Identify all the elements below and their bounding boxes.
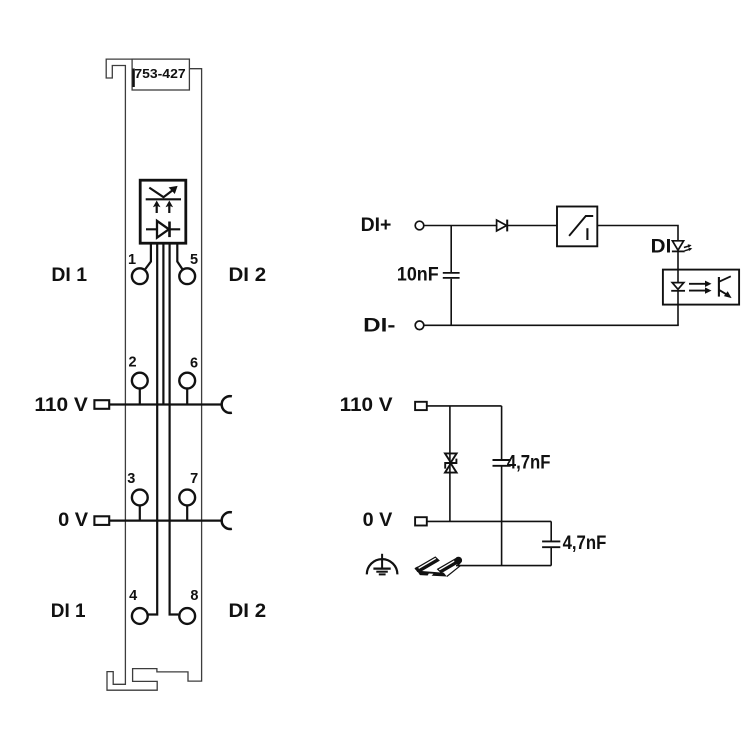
terminal 3 circle + stem <box>139 505 141 520</box>
surge arrow head <box>169 186 178 194</box>
terminal 1 circle <box>132 268 148 284</box>
DIN rail symbol <box>415 557 462 577</box>
LED DI indicator <box>672 241 683 250</box>
terminal 5 circle <box>179 268 195 284</box>
node junction vertical with 10nF <box>450 226 452 326</box>
opto LED <box>677 269 679 282</box>
svg-text:110 V: 110 V <box>34 394 88 416</box>
svg-text:110 V: 110 V <box>340 394 393 416</box>
terminal circle DI+ <box>415 221 424 230</box>
svg-text:DI+: DI+ <box>361 214 392 236</box>
terminal 8 circle <box>179 608 195 624</box>
svg-text:4: 4 <box>129 588 137 604</box>
order-number label box <box>132 59 189 90</box>
110V spade terminal <box>415 402 427 410</box>
diode D1 in box <box>146 228 180 230</box>
svg-text:3: 3 <box>127 471 135 487</box>
110V wire <box>427 405 502 407</box>
threshold symbol <box>569 216 593 236</box>
svg-text:DI 2: DI 2 <box>229 264 267 286</box>
diode D2 <box>497 220 507 231</box>
internal wire A to terminal 4 <box>148 243 157 614</box>
capacitor branch 4,7nF lower <box>550 521 552 565</box>
surge up-arrow left <box>156 205 158 214</box>
surge up-arrow right <box>168 205 170 214</box>
LED emission arrows <box>684 246 689 248</box>
svg-text:4,7nF: 4,7nF <box>563 532 607 554</box>
svg-text:1: 1 <box>128 252 136 268</box>
wire DI- bottom <box>424 324 679 326</box>
capacitor 10nF plates <box>443 273 460 278</box>
label box inner thick line <box>132 69 134 88</box>
110V bus bar <box>109 403 221 405</box>
opto coupling arrow 2 <box>689 290 706 292</box>
opto coupling arrow 1 <box>689 283 706 285</box>
terminal 4 circle <box>132 608 148 624</box>
terminal 2 circle + stem <box>139 388 141 404</box>
svg-text:DI 1: DI 1 <box>51 264 87 286</box>
wire DI+ to box <box>424 225 557 227</box>
optocoupler box U3 <box>663 270 739 305</box>
svg-text:8: 8 <box>190 588 198 604</box>
0V spade terminal <box>415 517 427 525</box>
internal wire B to terminal 8 <box>170 243 179 614</box>
0V spade terminal <box>94 516 109 525</box>
0V wire <box>427 520 551 522</box>
capacitor branch 4,7nF upper <box>501 406 503 566</box>
0V bus bar <box>109 519 221 521</box>
terminal 6 circle + stem <box>186 388 188 404</box>
pin wire to terminal 5 <box>177 243 182 269</box>
threshold switch box U2 <box>557 207 597 247</box>
svg-text:5: 5 <box>190 252 198 268</box>
svg-text:753-427: 753-427 <box>134 66 185 81</box>
ground wire <box>456 565 551 567</box>
svg-text:2: 2 <box>128 355 136 371</box>
surge arrester symbol <box>146 188 181 200</box>
phototransistor Q1 <box>718 277 720 297</box>
svg-text:10nF: 10nF <box>397 263 439 285</box>
terminal 7 circle + stem <box>186 505 188 520</box>
0V bus jumper contact arc <box>222 512 232 529</box>
svg-text:7: 7 <box>190 471 198 487</box>
wire box to corner <box>597 226 678 241</box>
TVS branch wire <box>449 406 451 522</box>
module outline 753 body <box>106 59 201 690</box>
svg-text:0 V: 0 V <box>58 509 88 531</box>
svg-text:4,7nF: 4,7nF <box>507 451 551 473</box>
svg-text:DI 2: DI 2 <box>229 600 267 622</box>
terminal circle DI- <box>415 321 424 330</box>
svg-text:DI-: DI- <box>363 314 395 336</box>
internal wire C to 110V bus <box>162 243 164 404</box>
svg-text:DI 1: DI 1 <box>51 600 86 622</box>
svg-text:0 V: 0 V <box>363 509 393 531</box>
110V spade terminal <box>94 400 109 409</box>
110V bus jumper contact arc <box>222 396 232 413</box>
wire LED to optocoupler <box>677 251 679 269</box>
svg-text:DI: DI <box>651 235 672 257</box>
svg-text:6: 6 <box>190 355 198 371</box>
TVS suppressor diode <box>445 453 457 472</box>
pin wire to terminal 1 <box>145 243 151 270</box>
functional earth symbol <box>367 554 398 575</box>
component box U1 <box>140 180 186 243</box>
